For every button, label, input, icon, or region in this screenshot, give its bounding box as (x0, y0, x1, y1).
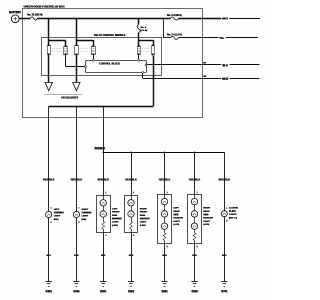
svg-text:SIDE: SIDE (173, 214, 179, 216)
svg-text:G301: G301 (100, 289, 107, 293)
svg-text:RIGHT: RIGHT (140, 208, 147, 210)
svg-text:MARKER: MARKER (112, 217, 122, 220)
svg-text:LIGHT: LIGHT (173, 221, 180, 223)
svg-text:BLU: BLU (223, 63, 229, 67)
svg-text:FRONT: FRONT (140, 212, 148, 214)
svg-text:MARKER: MARKER (173, 217, 183, 220)
svg-text:LIGHT: LIGHT (112, 222, 119, 224)
svg-text:LIGHT: LIGHT (54, 216, 61, 218)
svg-text:TURNING: TURNING (54, 212, 64, 214)
svg-text:BATTERY: BATTERY (9, 10, 21, 14)
svg-text:SIDE: SIDE (203, 214, 209, 216)
svg-text:(LED): (LED) (203, 224, 209, 226)
svg-text:UNDER-HOOD FUSE/RELAY BOX: UNDER-HOOD FUSE/RELAY BOX (24, 5, 65, 9)
svg-text:G701: G701 (221, 289, 228, 293)
svg-text:SIDE: SIDE (140, 215, 146, 217)
svg-text:LEFT: LEFT (54, 209, 60, 211)
svg-text:BLK: BLK (129, 255, 134, 257)
svg-text:HEADLIGHTS: HEADLIGHTS (61, 96, 78, 100)
svg-text:LIGHT: LIGHT (140, 222, 147, 224)
svg-text:RED/BLK: RED/BLK (189, 178, 201, 182)
svg-text:RIGHT: RIGHT (203, 208, 210, 210)
svg-text:BLK: BLK (162, 255, 167, 257)
svg-text:BLK: BLK (222, 255, 227, 257)
svg-text:No. 2-4 (15 A): No. 2-4 (15 A) (167, 34, 182, 37)
svg-text:(LED): (LED) (140, 225, 146, 227)
svg-text:G301: G301 (128, 289, 135, 293)
svg-text:LIGHT: LIGHT (82, 216, 89, 218)
svg-text:RED/BLK: RED/BLK (219, 178, 231, 182)
svg-text:G301: G301 (46, 289, 53, 293)
svg-text:RED/BLK: RED/BLK (71, 178, 83, 182)
svg-text:BLK: BLK (74, 255, 79, 257)
svg-text:RELAY CONTROL MODULE: RELAY CONTROL MODULE (94, 34, 126, 37)
svg-text:RED/BLK: RED/BLK (43, 178, 55, 182)
svg-text:WHT: WHT (222, 17, 228, 21)
svg-text:BLK: BLK (192, 255, 197, 257)
svg-text:SIDE: SIDE (112, 215, 118, 217)
svg-text:(7.5 A): (7.5 A) (141, 29, 148, 32)
svg-text:(5W X 2): (5W X 2) (229, 218, 237, 220)
svg-text:REAR: REAR (203, 210, 210, 213)
svg-text:CONTROL BLOCK: CONTROL BLOCK (99, 63, 120, 66)
svg-text:G552: G552 (191, 289, 198, 293)
svg-text:BLK: BLK (101, 255, 106, 257)
svg-text:G551: G551 (161, 289, 168, 293)
svg-text:FRONT: FRONT (112, 212, 120, 214)
svg-text:BLK: BLK (47, 255, 52, 257)
svg-text:RED/BLK: RED/BLK (159, 178, 171, 182)
svg-text:RED/BLK: RED/BLK (125, 178, 137, 182)
svg-text:MARKER: MARKER (203, 217, 213, 220)
svg-text:G301: G301 (73, 289, 80, 293)
svg-text:LIGHT: LIGHT (203, 221, 210, 223)
svg-text:LICENSE: LICENSE (229, 207, 238, 209)
svg-text:REAR: REAR (173, 210, 180, 213)
svg-text:No. 4: No. 4 (141, 26, 147, 29)
svg-text:(LED): (LED) (173, 224, 179, 226)
svg-text:(LED): (LED) (112, 225, 118, 227)
svg-text:No. 2-3 (30 A): No. 2-3 (30 A) (167, 14, 182, 17)
svg-text:(5W): (5W) (54, 219, 59, 221)
svg-text:No. 23 (100 A): No. 23 (100 A) (27, 14, 42, 17)
svg-text:RED/BLK: RED/BLK (98, 178, 110, 182)
svg-text:TURNING: TURNING (82, 212, 92, 214)
svg-text:LEFT: LEFT (112, 208, 118, 210)
svg-text:(5W): (5W) (82, 219, 87, 221)
svg-text:MARKER: MARKER (140, 217, 150, 220)
svg-text:PLATE: PLATE (229, 210, 236, 213)
svg-text:RIGHT: RIGHT (82, 209, 89, 211)
svg-text:YEL: YEL (219, 36, 225, 40)
svg-text:WHT: WHT (222, 77, 228, 81)
svg-text:LEFT: LEFT (173, 208, 179, 210)
svg-text:LIGHTS: LIGHTS (229, 214, 237, 216)
